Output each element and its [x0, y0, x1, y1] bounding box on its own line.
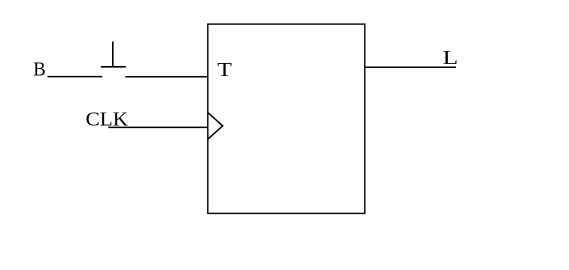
svg-text:L: L	[443, 47, 459, 69]
svg-text:CLK: CLK	[86, 109, 129, 131]
svg-text:B: B	[33, 59, 46, 81]
svg-text:T: T	[217, 59, 232, 81]
